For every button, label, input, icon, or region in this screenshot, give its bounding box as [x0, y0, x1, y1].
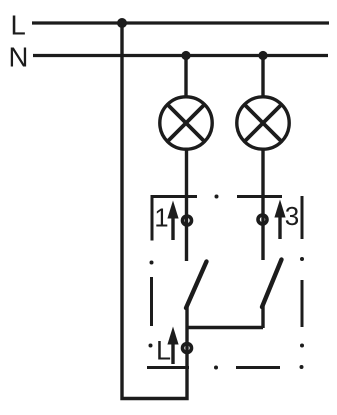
wire N bus	[33, 54, 328, 57]
junction dot on L bus	[117, 18, 127, 28]
svg-text:N: N	[9, 42, 29, 73]
wire right switch pivot drop	[261, 306, 264, 328]
svg-text:L: L	[156, 336, 171, 366]
wire N to lamp E2	[261, 56, 264, 99]
lamp E1	[160, 97, 212, 149]
wire L bus	[32, 21, 329, 24]
svg-text:L: L	[11, 10, 26, 41]
wire N to lamp E1	[184, 56, 187, 99]
terminal circle L	[183, 344, 192, 353]
terminal arrow L	[167, 327, 178, 365]
wire switch link bar	[187, 326, 263, 330]
terminal circle 1	[183, 216, 192, 225]
svg-text:3: 3	[285, 201, 299, 231]
wire L feed loop (down left, across bottom, up to switch common)	[122, 23, 187, 399]
junction dot on N bus (left)	[181, 51, 190, 60]
svg-text:1: 1	[154, 205, 168, 233]
switch S1 lever	[186, 262, 207, 309]
terminal arrow 3	[274, 200, 285, 240]
wire lamp E2 to terminal 3	[261, 148, 264, 260]
enclosure dash-dot border	[147, 195, 304, 370]
terminal arrow 1	[167, 201, 178, 241]
terminal circle 3	[258, 215, 267, 224]
wire lamp E1 to terminal 1	[185, 148, 188, 261]
lamp E2	[237, 97, 289, 149]
switch S2 lever	[262, 260, 282, 308]
junction dot on N bus (right)	[258, 51, 267, 60]
